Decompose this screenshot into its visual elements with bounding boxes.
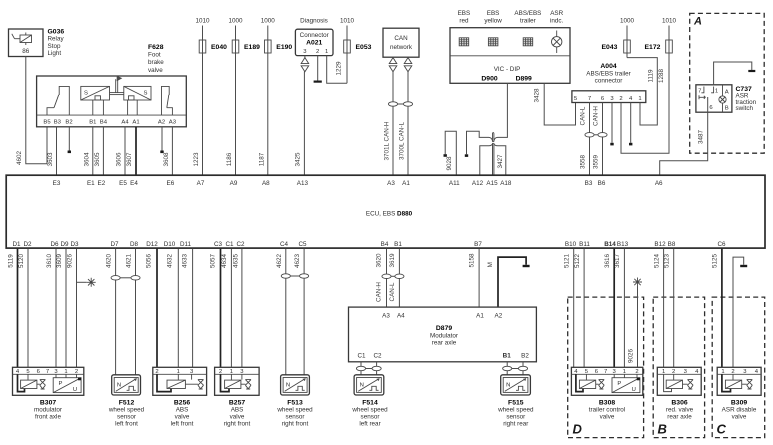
- label B307 modulator front axle: [34, 399, 62, 420]
- svg-text:EBS: EBS: [458, 10, 471, 17]
- svg-text:A3: A3: [169, 120, 177, 126]
- svg-text:4602: 4602: [16, 151, 23, 166]
- svg-text:2: 2: [155, 369, 158, 375]
- svg-text:3558: 3558: [580, 155, 587, 170]
- label B308 trailer control valve: [589, 399, 625, 420]
- svg-text:1119: 1119: [648, 69, 655, 83]
- svg-text:86: 86: [22, 48, 30, 55]
- svg-text:3606: 3606: [116, 152, 123, 167]
- dashed option box A: [690, 13, 765, 153]
- fuse E053: [344, 26, 372, 84]
- svg-text:CAN-L: CAN-L: [389, 282, 396, 301]
- wire 3605 F628 B4 to ECU E2: [102, 127, 104, 175]
- svg-text:A11: A11: [449, 180, 460, 187]
- svg-text:B307: B307: [40, 399, 56, 406]
- svg-text:B3: B3: [585, 180, 593, 187]
- wire 3610 ECU D6 to B307 pin3: [55, 249, 57, 368]
- svg-text:Modulator: Modulator: [430, 333, 458, 340]
- svg-text:4620: 4620: [106, 254, 113, 269]
- svg-text:2: 2: [316, 49, 319, 55]
- connector A004: [572, 91, 646, 103]
- svg-text:7: 7: [604, 369, 607, 375]
- svg-text:4622: 4622: [276, 254, 283, 269]
- svg-text:B2: B2: [65, 120, 72, 126]
- svg-text:C5: C5: [298, 241, 307, 248]
- svg-text:D7: D7: [110, 241, 119, 248]
- wire pair to ECU A15: [492, 143, 494, 175]
- svg-text:A2: A2: [158, 120, 165, 126]
- label F515 wheel speed sensor right rear: [497, 399, 534, 427]
- wire VIC-DIP D900 to twist node: [494, 83, 508, 142]
- svg-text:wheel speed: wheel speed: [276, 407, 313, 414]
- reducing valve rear axle B306: [657, 367, 701, 395]
- label F512 wheel speed sensor left front: [108, 399, 145, 427]
- F628 left switch contact: [47, 86, 69, 115]
- wire 3603 F628 B3 to ECU E3: [56, 127, 58, 175]
- svg-text:5056: 5056: [145, 254, 152, 269]
- svg-text:valve: valve: [230, 414, 245, 421]
- fuse E189: [232, 26, 260, 176]
- svg-text:left front: left front: [171, 421, 194, 428]
- svg-text:VIC - DIP: VIC - DIP: [494, 66, 521, 73]
- svg-text:B13: B13: [617, 241, 629, 248]
- svg-text:B12: B12: [654, 241, 666, 248]
- svg-text:U: U: [632, 387, 636, 393]
- wire 4633 ECU D11 to B256 pin3: [192, 249, 194, 368]
- svg-text:C3: C3: [214, 241, 223, 248]
- svg-text:A18: A18: [500, 180, 512, 187]
- wire 4621 ECU D8 to F512: [120, 249, 140, 375]
- svg-text:ABS: ABS: [231, 407, 244, 414]
- svg-text:Diagnosis: Diagnosis: [300, 18, 328, 25]
- svg-text:2: 2: [619, 96, 622, 102]
- svg-text:sensor: sensor: [506, 414, 525, 421]
- label A004 ABS/EBS trailer connector: [586, 63, 630, 85]
- svg-text:2: 2: [731, 369, 734, 375]
- wire 3701L CAN-H to ECU A3 with twist: [384, 72, 398, 176]
- svg-text:1: 1: [721, 369, 724, 375]
- svg-text:red. valve: red. valve: [666, 407, 694, 414]
- svg-text:4632: 4632: [167, 254, 174, 269]
- wire twist node to ECU A12: [480, 143, 493, 175]
- svg-text:U: U: [73, 387, 77, 393]
- svg-text:E4: E4: [130, 180, 138, 187]
- svg-text:5119: 5119: [7, 254, 14, 268]
- svg-text:C1: C1: [357, 353, 366, 360]
- trailer control valve B308: [571, 367, 642, 395]
- svg-text:right rear: right rear: [503, 421, 528, 428]
- svg-text:B5: B5: [43, 120, 51, 126]
- svg-text:A8: A8: [262, 180, 270, 187]
- dashed option box D: [568, 297, 644, 438]
- modulator rear axle D879: [349, 307, 537, 362]
- svg-text:ASR: ASR: [550, 10, 563, 17]
- wire 4602 G036 to F628 pin B5: [26, 57, 47, 164]
- terminal stub F628 A2: [160, 127, 163, 153]
- svg-text:A: A: [725, 90, 729, 96]
- svg-text:4621: 4621: [126, 254, 133, 269]
- svg-text:valve: valve: [600, 414, 615, 421]
- svg-text:E3: E3: [53, 180, 61, 187]
- svg-text:D11: D11: [180, 241, 192, 248]
- svg-text:3605: 3605: [94, 152, 101, 167]
- svg-text:A6: A6: [655, 180, 663, 187]
- svg-text:5122: 5122: [574, 254, 581, 269]
- wire 3487 C737 to ECU A6: [660, 97, 708, 175]
- svg-text:E1: E1: [87, 180, 95, 187]
- svg-text:N: N: [506, 383, 510, 389]
- svg-text:B309: B309: [731, 399, 747, 406]
- svg-text:B4: B4: [381, 241, 389, 248]
- svg-text:D2: D2: [23, 241, 32, 248]
- svg-text:connector: connector: [595, 78, 623, 85]
- svg-text:4623: 4623: [294, 254, 301, 269]
- svg-text:G036: G036: [48, 29, 65, 36]
- VIC-DIP module D900 D899: [450, 28, 570, 84]
- connector arrows below CAN network (CAN-H): [389, 57, 397, 72]
- svg-text:A1: A1: [476, 313, 484, 320]
- svg-text:B3: B3: [54, 120, 62, 126]
- ASR indicator lamp icon: [552, 31, 562, 54]
- wire 1119 E043 to A004 pin1: [627, 58, 657, 125]
- dashed option box C: [712, 297, 765, 438]
- F628 right switch contact: [162, 86, 173, 115]
- wire 5119 ECU D1 to B307 pin4 (thick): [17, 249, 19, 368]
- wire 4634 ECU C1 to B257 pin1: [230, 249, 232, 368]
- wire 3425 A021 pin3 to ECU A13: [303, 72, 305, 176]
- svg-text:D: D: [573, 422, 583, 437]
- label F628 Foot brake valve: [148, 44, 164, 74]
- wire 3700L CAN-L to ECU A1 with twist: [398, 72, 413, 176]
- wire 5125 ECU C6 to B309 pin1 (thick): [721, 249, 723, 368]
- wire D879 B1 to F515: [503, 362, 512, 375]
- svg-text:2: 2: [672, 369, 675, 375]
- label F514 wheel speed sensor left rear: [351, 399, 388, 427]
- wire 4622 ECU C4 to F513: [276, 249, 291, 375]
- connector arrows below A021 pin 3: [301, 56, 309, 72]
- svg-text:switch: switch: [736, 105, 754, 112]
- ABS valve right front B257: [215, 367, 260, 395]
- svg-text:Connector: Connector: [300, 32, 329, 39]
- svg-text:9026: 9026: [67, 254, 74, 269]
- wire B309 pin2 to ground: [733, 257, 747, 367]
- svg-text:1288: 1288: [658, 69, 665, 84]
- svg-text:B1: B1: [394, 241, 402, 248]
- wire 5056 ECU D12 to B256 pin2 (thick): [156, 249, 158, 368]
- svg-text:B256: B256: [174, 399, 190, 406]
- ECU bottom pin labels: [12, 241, 726, 248]
- svg-text:F628: F628: [148, 44, 164, 51]
- svg-text:red: red: [459, 18, 469, 25]
- wire 3609 ECU D9 to B307 pin1: [65, 249, 67, 368]
- svg-text:3425: 3425: [295, 152, 302, 167]
- svg-text:4634: 4634: [221, 254, 228, 269]
- wire 4623 ECU C5 to F513: [290, 249, 308, 375]
- svg-text:D899: D899: [516, 76, 532, 83]
- svg-text:B6: B6: [598, 180, 606, 187]
- wire 5120 ECU D2 to B307 pin5: [27, 249, 29, 368]
- svg-text:E040: E040: [211, 44, 227, 51]
- svg-text:E053: E053: [356, 44, 372, 51]
- svg-text:3604: 3604: [83, 152, 90, 167]
- svg-text:3559: 3559: [593, 155, 600, 170]
- svg-text:4633: 4633: [182, 254, 189, 269]
- label B256 ABS valve left front: [171, 399, 194, 427]
- wire 3608 F628 A3 to ECU E6: [171, 127, 173, 175]
- terminal stub A004 pin3: [610, 103, 613, 146]
- svg-text:trailer control: trailer control: [589, 407, 625, 414]
- wire 3558 CAN-L A004 pin7 to ECU B3: [580, 103, 594, 176]
- svg-text:A13: A13: [297, 180, 309, 187]
- svg-text:B11: B11: [579, 241, 590, 248]
- svg-text:N: N: [360, 383, 364, 389]
- svg-text:C6: C6: [717, 241, 726, 248]
- svg-text:ABS/EBS: ABS/EBS: [514, 10, 541, 17]
- svg-text:B: B: [658, 422, 667, 437]
- svg-text:1000: 1000: [228, 18, 243, 25]
- svg-text:5124: 5124: [653, 254, 660, 269]
- wire 3617 ECU B13 to B308 pin1: [623, 249, 625, 368]
- svg-text:F513: F513: [287, 399, 303, 406]
- ASR traction switch C737: [696, 85, 732, 112]
- wire D879 C1 to F514: [356, 362, 365, 375]
- svg-text:B: B: [725, 106, 729, 112]
- svg-text:D879: D879: [436, 325, 452, 332]
- svg-text:F512: F512: [119, 399, 135, 406]
- svg-text:3608: 3608: [163, 152, 170, 167]
- svg-text:front axle: front axle: [35, 413, 61, 420]
- svg-text:1: 1: [177, 369, 180, 375]
- svg-text:ECU, EBS D880: ECU, EBS D880: [366, 211, 413, 218]
- svg-text:3428: 3428: [534, 88, 541, 103]
- fuse E190: [265, 26, 293, 176]
- wheel speed sensor F515: [501, 375, 531, 395]
- wire D879 B2 to F515: [512, 362, 528, 375]
- svg-text:valve: valve: [732, 414, 747, 421]
- wire 5121 ECU B10 to B308 pin4: [573, 249, 575, 368]
- wire M D879 A2 to ground: [487, 257, 530, 307]
- svg-text:3617: 3617: [614, 254, 621, 269]
- EBS yellow indicator icon: [488, 38, 498, 46]
- wire 3559 CAN-H A004 pin6 to ECU B6: [593, 103, 607, 176]
- svg-text:5125: 5125: [711, 254, 718, 269]
- svg-text:3701L CAN-H: 3701L CAN-H: [384, 121, 391, 160]
- svg-text:rear axle: rear axle: [667, 414, 692, 421]
- svg-text:B257: B257: [229, 399, 245, 406]
- svg-text:right front: right front: [282, 421, 309, 428]
- svg-text:B10: B10: [565, 241, 577, 248]
- fuse E043: [602, 26, 631, 58]
- svg-text:1187: 1187: [258, 152, 265, 166]
- svg-text:E189: E189: [244, 44, 260, 51]
- svg-text:P: P: [617, 381, 621, 387]
- wire 3620 CAN-H ECU B4 to D879 A3: [376, 249, 391, 308]
- F628 pedal linkage: [110, 76, 124, 95]
- svg-text:3487: 3487: [698, 130, 705, 145]
- svg-text:D900: D900: [481, 76, 497, 83]
- svg-text:Relay: Relay: [48, 36, 65, 43]
- svg-text:5120: 5120: [18, 254, 25, 269]
- svg-text:A4: A4: [121, 120, 129, 126]
- svg-text:C2: C2: [236, 241, 245, 248]
- svg-text:1010: 1010: [195, 18, 210, 25]
- dashed option box B: [653, 297, 704, 438]
- svg-text:Light: Light: [48, 50, 62, 57]
- svg-text:1: 1: [715, 89, 718, 95]
- svg-text:B308: B308: [599, 399, 615, 406]
- svg-text:A4: A4: [397, 313, 405, 320]
- ABS/EBS trailer indicator icon: [523, 38, 533, 46]
- svg-text:1: 1: [623, 369, 626, 375]
- svg-text:1: 1: [64, 369, 67, 375]
- svg-text:A2: A2: [495, 313, 503, 320]
- svg-text:D12: D12: [146, 241, 158, 248]
- modulator front axle B307: [13, 367, 84, 395]
- svg-text:A7: A7: [197, 180, 205, 187]
- svg-text:A3: A3: [382, 313, 390, 320]
- svg-text:F514: F514: [362, 399, 378, 406]
- svg-text:B1: B1: [503, 353, 512, 360]
- label G036 Relay Stop Light: [48, 29, 65, 58]
- svg-text:wheel speed: wheel speed: [351, 407, 388, 414]
- svg-text:1000: 1000: [620, 18, 635, 25]
- svg-text:B7: B7: [474, 241, 482, 248]
- svg-text:sensor: sensor: [286, 414, 305, 421]
- wire 9026 ECU D3 to B307 pin2: [76, 249, 78, 368]
- svg-text:CAN-H: CAN-H: [593, 106, 600, 126]
- wire 4620 ECU D7 to F512: [106, 249, 121, 375]
- svg-text:P: P: [59, 381, 63, 387]
- svg-text:ABS/EBS trailer: ABS/EBS trailer: [586, 70, 630, 77]
- warning lamp labels above VIC-DIP: [458, 10, 564, 25]
- svg-text:7: 7: [46, 369, 49, 375]
- wire 1288 E172 to A004 pin2: [621, 53, 669, 153]
- star node 9026 branch: [77, 278, 96, 287]
- star node 9026: [633, 278, 642, 287]
- wire D879 C2 to F514: [366, 362, 382, 375]
- svg-text:B4: B4: [100, 120, 108, 126]
- wire 5122 ECU B11 to B308 pin5: [583, 249, 585, 368]
- wire 3427 twist node to ECU A18: [494, 143, 506, 175]
- svg-text:3700L CAN-L: 3700L CAN-L: [399, 122, 406, 160]
- svg-text:B14: B14: [604, 241, 616, 248]
- wheel speed sensor F514: [354, 375, 384, 395]
- svg-text:sensor: sensor: [361, 414, 380, 421]
- svg-text:brake: brake: [148, 59, 164, 66]
- wire 3616 ECU B14 to B308 pin3 (thick): [613, 249, 615, 368]
- svg-text:E190: E190: [276, 44, 292, 51]
- svg-text:left rear: left rear: [359, 421, 380, 428]
- svg-text:7: 7: [588, 96, 591, 102]
- foot brake valve F628: [37, 76, 187, 127]
- svg-text:9026: 9026: [627, 349, 634, 364]
- svg-text:5158: 5158: [469, 253, 476, 268]
- svg-text:1: 1: [230, 369, 233, 375]
- svg-text:B1: B1: [89, 120, 96, 126]
- svg-text:1223: 1223: [193, 152, 200, 167]
- svg-text:trailer: trailer: [520, 18, 536, 25]
- svg-text:CAN-L: CAN-L: [580, 106, 587, 125]
- label B306 red. valve rear axle: [666, 399, 694, 420]
- svg-text:indc.: indc.: [550, 18, 564, 25]
- svg-text:F515: F515: [508, 399, 524, 406]
- terminal stub F628 B2: [68, 127, 71, 153]
- svg-text:C: C: [717, 422, 727, 437]
- label C737 ASR traction switch: [736, 86, 757, 112]
- svg-text:C1: C1: [225, 241, 234, 248]
- svg-text:1229: 1229: [336, 61, 343, 76]
- svg-text:5121: 5121: [564, 254, 571, 269]
- wire 4635 ECU C2 to B257 pin3: [241, 249, 243, 368]
- svg-text:C2: C2: [373, 353, 382, 360]
- CAN network box: [383, 28, 419, 57]
- svg-text:S: S: [144, 91, 148, 97]
- wire 3604 F628 B1 to ECU E1: [92, 127, 94, 175]
- svg-text:Stop: Stop: [48, 43, 61, 50]
- svg-text:7: 7: [698, 89, 701, 95]
- fuse E040: [199, 26, 227, 176]
- svg-text:A: A: [693, 16, 702, 28]
- svg-text:CAN: CAN: [394, 35, 408, 42]
- svg-text:left front: left front: [115, 421, 138, 428]
- svg-text:D9: D9: [60, 241, 69, 248]
- wire 5057 ECU C3 to B257 pin2 (thick): [220, 249, 222, 368]
- svg-text:A9: A9: [230, 180, 238, 187]
- svg-text:valve: valve: [148, 67, 163, 74]
- svg-text:yellow: yellow: [484, 18, 502, 25]
- wheel speed sensor F512: [112, 375, 141, 395]
- label F513 wheel speed sensor right front: [276, 399, 313, 427]
- svg-text:A15: A15: [486, 180, 498, 187]
- svg-text:3607: 3607: [126, 152, 133, 167]
- ground A021 pin 2: [314, 56, 322, 82]
- ABS valve left front B256: [153, 367, 207, 395]
- svg-text:1: 1: [662, 369, 665, 375]
- connector A021: [295, 29, 333, 55]
- svg-text:5123: 5123: [664, 254, 671, 269]
- svg-text:network: network: [390, 44, 413, 51]
- svg-text:sensor: sensor: [117, 414, 136, 421]
- svg-text:right front: right front: [224, 421, 251, 428]
- wire 5158 ECU B7 to D879 A1: [478, 249, 480, 308]
- wire 3619 CAN-L ECU B1 to D879 A4: [389, 249, 404, 308]
- svg-text:4635: 4635: [233, 254, 240, 269]
- svg-text:modulator: modulator: [34, 406, 62, 413]
- ECU, EBS D880 main control unit: [6, 175, 765, 248]
- svg-text:C4: C4: [280, 241, 289, 248]
- label B309 ASR disable valve: [722, 399, 757, 420]
- svg-text:E5: E5: [119, 180, 127, 187]
- label B257 ABS valve right front: [224, 399, 251, 427]
- svg-text:A1: A1: [132, 120, 139, 126]
- svg-text:3603: 3603: [47, 152, 54, 167]
- EBS red indicator icon: [459, 38, 469, 46]
- wheel speed sensor F513: [281, 375, 310, 395]
- svg-text:2: 2: [219, 369, 222, 375]
- svg-text:M: M: [487, 262, 494, 267]
- svg-text:E043: E043: [602, 44, 618, 51]
- svg-text:valve: valve: [175, 414, 190, 421]
- svg-text:D1: D1: [12, 241, 21, 248]
- connector arrows below CAN network (CAN-L): [404, 57, 412, 72]
- svg-text:1010: 1010: [340, 18, 355, 25]
- svg-text:ASR disable: ASR disable: [722, 407, 757, 414]
- twisted pair node cap: [493, 133, 494, 142]
- svg-text:B306: B306: [671, 399, 687, 406]
- relay G036 box: [9, 29, 44, 57]
- svg-text:3609: 3609: [56, 254, 63, 269]
- svg-text:1: 1: [638, 96, 641, 102]
